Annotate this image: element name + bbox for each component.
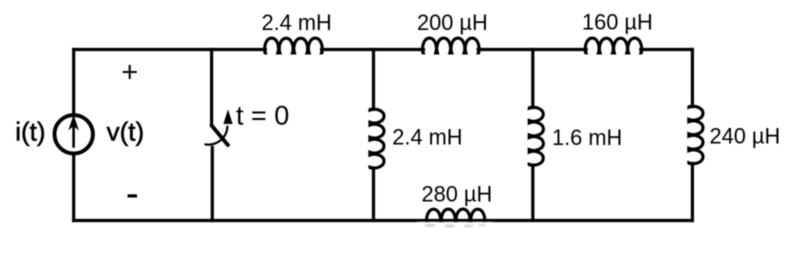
wire: bottom rail (continuous) — [74, 219, 693, 222]
wire: right edge upper — [691, 50, 694, 107]
wire: top, L2 to L3 — [478, 48, 586, 51]
current source I1 circle — [54, 115, 92, 153]
svg-text:240 µH: 240 µH — [710, 124, 781, 149]
wire: node2 branch lower — [531, 165, 534, 221]
switch arrow head — [223, 109, 232, 124]
current source arrow shaft — [72, 126, 75, 148]
inductor L1 2.4 mH top series coil — [264, 38, 322, 53]
wire: node2 branch upper — [531, 50, 534, 108]
svg-text:160 µH: 160 µH — [582, 10, 653, 35]
svg-text:1.6 mH: 1.6 mH — [552, 125, 622, 150]
svg-text:280 µH: 280 µH — [422, 182, 493, 207]
L7 ghost remnant 4 — [478, 224, 486, 227]
wire: top, L3 to right corner — [641, 48, 693, 51]
L7 ghost remnant 3 — [464, 224, 474, 228]
svg-text:2.4 mH: 2.4 mH — [392, 124, 462, 149]
L7 under-wire cleanup mask — [418, 222, 492, 234]
inductor L4 2.4 mH shunt coil — [370, 109, 384, 169]
switch SW1 blade — [212, 126, 228, 146]
wire: top, L1 to L2 — [322, 48, 424, 51]
svg-text:i(t): i(t) — [15, 117, 45, 147]
inductor L5 1.6 mH shunt coil — [529, 107, 543, 166]
svg-text:200 µH: 200 µH — [417, 10, 488, 35]
wire: left edge above source — [72, 50, 75, 113]
wire: switch branch upper — [210, 50, 213, 126]
L7 ghost remnant 1 — [425, 224, 436, 228]
inductor L6 240 uH right edge coil — [689, 106, 703, 164]
svg-text:v(t): v(t) — [107, 117, 145, 147]
L7 ghost remnant 2 — [444, 224, 455, 228]
wire: top, source to L1 — [74, 48, 266, 51]
label minus sign — [128, 194, 138, 197]
current source arrow head — [68, 115, 79, 131]
switch actuation arc — [205, 126, 228, 145]
inductor L7 280 uH bottom series coil — [426, 209, 485, 224]
svg-text:2.4 mH: 2.4 mH — [262, 10, 332, 35]
svg-text:t = 0: t = 0 — [236, 101, 289, 131]
inductor L2 200 uH top series coil — [422, 38, 479, 53]
wire: right edge lower — [691, 164, 694, 221]
svg-text:+: + — [121, 57, 138, 89]
wire: node1 branch lower — [372, 168, 375, 221]
wire: left edge below source — [72, 156, 75, 221]
wire: node1 branch upper — [372, 50, 375, 110]
wire: switch branch lower — [211, 148, 214, 221]
inductor L3 160 uH top series coil — [585, 38, 642, 53]
